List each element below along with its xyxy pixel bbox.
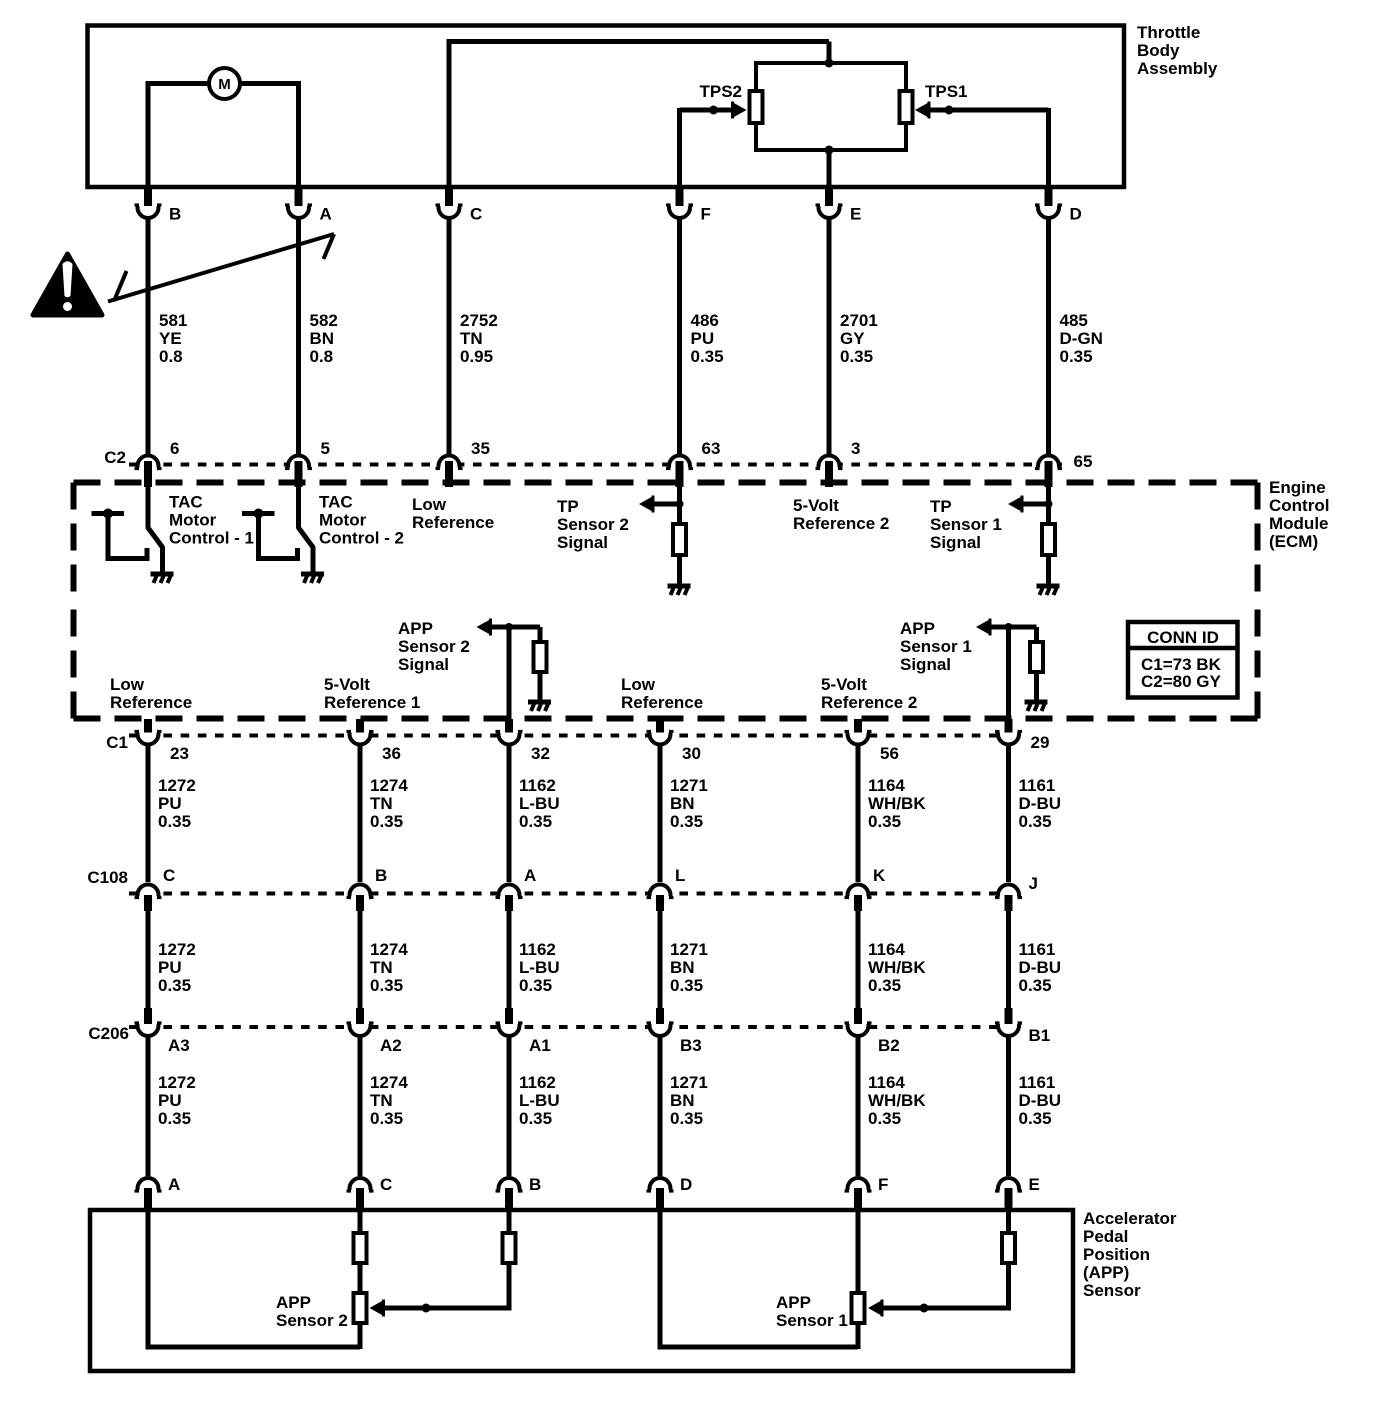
svg-text:C: C (163, 866, 175, 885)
svg-text:1162: 1162 (519, 940, 556, 959)
svg-text:1274: 1274 (370, 1073, 408, 1092)
wire: E wiper path with arrow (868, 1265, 1011, 1317)
svg-text:0.35: 0.35 (1019, 1109, 1052, 1128)
label TAC Motor Control - 1 (169, 493, 254, 548)
svg-text:0.35: 0.35 (370, 812, 403, 831)
svg-text:J: J (1029, 874, 1038, 893)
wire 1161 D-BU C108 to C206 (1006, 910, 1011, 1009)
label Low Reference (pin 23) (110, 675, 192, 712)
svg-text:35: 35 (471, 439, 490, 458)
svg-text:1161: 1161 (1019, 940, 1056, 959)
wire 1274 TN C1 to C108 (358, 745, 363, 882)
connector C206 pin B1 (995, 1008, 1050, 1045)
Accelerator Pedal Position Sensor box (90, 1210, 1073, 1371)
svg-text:C1: C1 (106, 733, 128, 752)
svg-text:Sensor 2: Sensor 2 (398, 637, 470, 656)
svg-text:C108: C108 (87, 868, 128, 887)
wire 1272 PU C1 to C108 (146, 745, 151, 882)
wire label 1164 WH/BK (lower) (868, 1073, 926, 1128)
svg-text:(APP): (APP) (1083, 1263, 1129, 1282)
wire 1272 PU C206 to APP sensor (146, 1037, 151, 1176)
junction dot TPS top (825, 59, 834, 68)
TP Sensor 1 signal circuit (resistor + ground) (1008, 486, 1060, 595)
connector C2 pin 63 (666, 439, 720, 487)
svg-text:D-GN: D-GN (1060, 329, 1103, 348)
connector C2 pin 6 (135, 439, 180, 487)
wire label 1161 D-BU (lower) (1019, 1073, 1062, 1128)
label APP Sensor 1 (776, 1293, 848, 1330)
svg-text:A: A (524, 866, 536, 885)
svg-text:Body: Body (1137, 41, 1180, 60)
connector APP sensor pin E (995, 1175, 1040, 1211)
svg-text:E: E (850, 205, 861, 224)
svg-text:BN: BN (670, 794, 695, 813)
svg-text:0.35: 0.35 (370, 1109, 403, 1128)
svg-text:E: E (1029, 1175, 1040, 1194)
svg-text:0.35: 0.35 (519, 812, 552, 831)
svg-text:PU: PU (158, 958, 182, 977)
wire 1162 L-BU C1 to C108 (507, 745, 512, 882)
connector C2 pin 3 (816, 439, 861, 487)
svg-text:TP: TP (930, 497, 952, 516)
svg-text:D: D (680, 1175, 692, 1194)
connector C1 pin 56 (845, 719, 899, 763)
svg-text:0.35: 0.35 (670, 1109, 703, 1128)
svg-text:TN: TN (460, 329, 483, 348)
junction dot on TPS2 wiper wire (709, 106, 718, 115)
svg-text:M: M (218, 76, 231, 93)
connector C108 pin A (496, 866, 537, 911)
junction dot on APP2 wiper wire (422, 1304, 431, 1313)
svg-text:Reference 1: Reference 1 (324, 693, 420, 712)
connector C108 pin L (647, 866, 686, 911)
svg-text:Motor: Motor (319, 511, 367, 530)
connector C1 pin 30 (647, 719, 701, 763)
svg-text:Throttle: Throttle (1137, 23, 1200, 42)
svg-text:Sensor 1: Sensor 1 (900, 637, 972, 656)
wire label 1164 WH/BK (middle) (868, 940, 926, 995)
svg-text:Sensor 1: Sensor 1 (930, 515, 1002, 534)
svg-text:0.35: 0.35 (670, 812, 703, 831)
wire 1271 BN C108 to C206 (658, 910, 663, 1009)
svg-text:B3: B3 (680, 1036, 702, 1055)
wire label 1274 TN (lower) (370, 1073, 408, 1128)
connector C108 pin J (995, 874, 1038, 911)
svg-text:C: C (380, 1175, 392, 1194)
svg-text:A: A (168, 1175, 180, 1194)
wire label 485 D-GN 0.35 (1060, 311, 1103, 366)
svg-text:5-Volt: 5-Volt (793, 496, 839, 515)
svg-text:Reference: Reference (621, 693, 703, 712)
TPS bridge rectangle (756, 63, 906, 150)
connector row C206 dotted line (129, 1025, 1022, 1029)
wire: D wiper to TPS1 with arrow (915, 102, 1049, 188)
svg-text:0.35: 0.35 (868, 812, 901, 831)
svg-text:L-BU: L-BU (519, 1091, 560, 1110)
svg-text:Control - 2: Control - 2 (319, 529, 404, 548)
wire: pot bottom to low ref rail (358, 1325, 363, 1349)
svg-text:581: 581 (159, 311, 187, 330)
resistor: APP sensor 1 signal series (E) (1002, 1233, 1015, 1263)
svg-text:Signal: Signal (930, 533, 981, 552)
label APP Sensor 2 (276, 1293, 348, 1330)
wire label 1271 BN (middle) (670, 940, 708, 995)
svg-text:0.35: 0.35 (868, 1109, 901, 1128)
svg-text:1164: 1164 (868, 776, 905, 795)
svg-text:BN: BN (670, 958, 695, 977)
connector APP sensor pin F (845, 1175, 889, 1211)
switch: TAC Motor Control - 2 (242, 486, 324, 583)
svg-text:A3: A3 (168, 1036, 190, 1055)
svg-text:0.35: 0.35 (158, 1109, 191, 1128)
wire segment 2701 GY (827, 219, 832, 454)
wire: motor left to B leg (148, 81, 210, 86)
svg-text:GY: GY (840, 329, 865, 348)
APP Sensor 1 signal circuit (resistor + ground) (976, 619, 1048, 738)
label TPS2 (699, 82, 742, 101)
wire 1274 TN C108 to C206 (358, 910, 363, 1009)
wire 1271 BN C1 to C108 (658, 745, 663, 882)
svg-text:Signal: Signal (900, 655, 951, 674)
svg-text:APP: APP (398, 619, 433, 638)
connector C2 pin 65 (1035, 452, 1092, 487)
label 5-Volt Reference 1 (pin 36) (324, 675, 420, 712)
wire label 1162 L-BU (lower) (519, 1073, 560, 1128)
wire segment 581 YE (146, 219, 151, 454)
label Low Reference (pin 30) (621, 675, 703, 712)
svg-text:2701: 2701 (840, 311, 878, 330)
svg-text:L-BU: L-BU (519, 958, 560, 977)
svg-text:C2=80 GY: C2=80 GY (1141, 672, 1222, 691)
wire label 582 BN 0.8 (310, 311, 338, 366)
wire label 1162 L-BU (middle) (519, 940, 560, 995)
svg-text:Pedal: Pedal (1083, 1227, 1128, 1246)
svg-text:TN: TN (370, 1091, 393, 1110)
label TAC Motor Control - 2 (319, 493, 404, 548)
connector row C2 dotted line (129, 463, 1062, 467)
wire 1161 D-BU C1 to C108 (1006, 745, 1011, 882)
wire 1161 D-BU C206 to APP sensor (1006, 1037, 1011, 1176)
svg-text:56: 56 (880, 744, 899, 763)
label C206 (88, 1024, 129, 1043)
connector C206 pin A1 (496, 1008, 551, 1055)
label APP Sensor 1 Signal (900, 619, 972, 674)
wire label 1162 L-BU (upper) (519, 776, 560, 831)
potentiometer: APP Sensor 1 element (852, 1293, 865, 1323)
svg-text:6: 6 (170, 439, 179, 458)
svg-text:TAC: TAC (169, 493, 203, 512)
label: Accelerator Pedal Position (APP) Sensor (1083, 1209, 1177, 1300)
svg-text:5-Volt: 5-Volt (821, 675, 867, 694)
wire: between resistor and pot (C) (358, 1265, 363, 1292)
connector C2 pin 5 (285, 439, 330, 487)
CONN ID table (1128, 622, 1238, 698)
label Low Reference (pin 35) (412, 495, 494, 532)
svg-text:APP: APP (276, 1293, 311, 1312)
label C2 (104, 448, 126, 467)
svg-text:D-BU: D-BU (1019, 794, 1062, 813)
svg-text:WH/BK: WH/BK (868, 958, 926, 977)
connector C206 pin A2 (347, 1008, 402, 1055)
svg-text:C206: C206 (88, 1024, 129, 1043)
svg-text:65: 65 (1074, 452, 1093, 471)
wire label 1274 TN (upper) (370, 776, 408, 831)
svg-text:B1: B1 (1029, 1026, 1051, 1045)
wire segment 582 BN (296, 219, 301, 454)
svg-text:K: K (873, 866, 886, 885)
svg-text:0.35: 0.35 (670, 976, 703, 995)
connector C206 pin B2 (845, 1008, 900, 1055)
label: Throttle Body Assembly (1137, 23, 1218, 78)
svg-text:Engine: Engine (1269, 478, 1326, 497)
connector C2 pin 35 (436, 439, 490, 487)
wire 1272 PU C108 to C206 (146, 910, 151, 1009)
svg-text:Signal: Signal (398, 655, 449, 674)
svg-text:1162: 1162 (519, 776, 556, 795)
svg-text:WH/BK: WH/BK (868, 794, 926, 813)
svg-text:D-BU: D-BU (1019, 1091, 1062, 1110)
svg-text:A1: A1 (529, 1036, 551, 1055)
svg-text:APP: APP (900, 619, 935, 638)
svg-text:2752: 2752 (460, 311, 498, 330)
wire 1162 L-BU C108 to C206 (507, 910, 512, 1009)
svg-text:Low: Low (412, 495, 447, 514)
svg-text:TPS1: TPS1 (925, 82, 968, 101)
wire 1164 WH/BK C206 to APP sensor (856, 1037, 861, 1176)
wire: C up and across to TPS top (447, 42, 830, 188)
connector APP sensor pin B (496, 1175, 542, 1211)
connector row C108 dotted line (129, 892, 1022, 896)
svg-text:1161: 1161 (1019, 1073, 1056, 1092)
svg-text:Control - 1: Control - 1 (169, 529, 254, 548)
wire label 1272 PU (lower) (158, 1073, 196, 1128)
svg-text:485: 485 (1060, 311, 1088, 330)
wire segment 2752 TN (447, 219, 452, 454)
svg-text:D-BU: D-BU (1019, 958, 1062, 977)
svg-text:1162: 1162 (519, 1073, 556, 1092)
wire label 1271 BN (lower) (670, 1073, 708, 1128)
svg-text:486: 486 (691, 311, 719, 330)
connector pin E (throttle body) (816, 186, 862, 224)
svg-text:TN: TN (370, 958, 393, 977)
wire 1162 L-BU C206 to APP sensor (507, 1037, 512, 1176)
TP Sensor 2 signal circuit (resistor + ground) (639, 486, 691, 595)
ECM dashed box (74, 483, 1258, 719)
wire label 1272 PU (upper) (158, 776, 196, 831)
wire label 2701 GY 0.35 (840, 311, 878, 366)
wire label 1161 D-BU (upper) (1019, 776, 1062, 831)
svg-text:1271: 1271 (670, 776, 708, 795)
svg-text:0.8: 0.8 (310, 347, 334, 366)
APP Sensor 2 signal circuit (resistor + ground) (477, 619, 552, 738)
Throttle Body Assembly box (88, 26, 1125, 188)
label 5-Volt Reference 2 (pin 3) (793, 496, 889, 533)
resistor: APP sensor 2 series (C) (354, 1233, 367, 1263)
svg-text:36: 36 (382, 744, 401, 763)
svg-text:PU: PU (158, 794, 182, 813)
wire label 1271 BN (upper) (670, 776, 708, 831)
svg-text:0.35: 0.35 (158, 812, 191, 831)
label: Engine Control Module (ECM) (1269, 478, 1329, 551)
svg-text:C: C (470, 205, 482, 224)
svg-text:1274: 1274 (370, 776, 408, 795)
connector C1 pin 23 (135, 719, 189, 763)
wire 1164 WH/BK C1 to C108 (856, 745, 861, 882)
svg-text:APP: APP (776, 1293, 811, 1312)
connector C1 pin 32 (496, 719, 550, 763)
junction dot on APP1 wiper wire (920, 1304, 929, 1313)
resistor: TPS1 element (900, 91, 913, 123)
wire segment 486 PU (677, 219, 682, 454)
connector C108 pin B (347, 866, 388, 911)
svg-text:YE: YE (159, 329, 182, 348)
svg-text:0.35: 0.35 (1019, 976, 1052, 995)
motor M1 circle with M (209, 68, 240, 99)
svg-text:Module: Module (1269, 514, 1329, 533)
junction dot on TPS1 wiper wire (945, 106, 954, 115)
warning triangle symbol (33, 254, 102, 315)
wire: pin C 5V into resistor (358, 1210, 363, 1232)
svg-text:Reference: Reference (110, 693, 192, 712)
leader arrow from warning symbol (108, 234, 334, 302)
label TPS1 (925, 82, 968, 101)
wire label 1164 WH/BK (upper) (868, 776, 926, 831)
svg-text:0.35: 0.35 (519, 976, 552, 995)
svg-text:B2: B2 (878, 1036, 900, 1055)
svg-text:Sensor 2: Sensor 2 (276, 1311, 348, 1330)
connector C108 pin K (845, 866, 887, 911)
svg-text:Sensor 2: Sensor 2 (557, 515, 629, 534)
svg-text:TP: TP (557, 497, 579, 516)
connector C206 pin B3 (647, 1008, 702, 1055)
wire 1271 BN C206 to APP sensor (658, 1037, 663, 1176)
svg-text:Sensor 1: Sensor 1 (776, 1311, 848, 1330)
wire: pin F 5V to pot (856, 1210, 861, 1292)
svg-text:Assembly: Assembly (1137, 59, 1218, 78)
connector pin A (throttle body) (285, 186, 332, 224)
potentiometer: APP Sensor 2 element (354, 1293, 367, 1323)
svg-text:D: D (1070, 205, 1082, 224)
connector pin D (throttle body) (1035, 186, 1082, 224)
svg-text:Motor: Motor (169, 511, 217, 530)
svg-text:1272: 1272 (158, 776, 196, 795)
wire: pot bottom to low ref rail (right) (856, 1325, 861, 1349)
wire label 2752 TN 0.95 (460, 311, 498, 366)
label C108 (87, 868, 128, 887)
svg-text:582: 582 (310, 311, 338, 330)
svg-text:0.35: 0.35 (840, 347, 873, 366)
label 5-Volt Reference 2 (pin 56) (821, 675, 917, 712)
svg-text:F: F (701, 205, 711, 224)
svg-text:B: B (529, 1175, 541, 1194)
resistor: APP sensor 2 signal series (B) (503, 1233, 516, 1263)
svg-text:PU: PU (158, 1091, 182, 1110)
wire: A leg vertical (296, 81, 301, 187)
wire label 581 YE 0.8 (159, 311, 187, 366)
svg-text:3: 3 (851, 439, 860, 458)
svg-text:1271: 1271 (670, 1073, 708, 1092)
svg-text:0.35: 0.35 (868, 976, 901, 995)
svg-text:CONN ID: CONN ID (1147, 628, 1219, 647)
connector pin B (throttle body) (135, 186, 182, 224)
connector pin F (throttle body) (666, 186, 711, 224)
svg-text:PU: PU (691, 329, 715, 348)
wire segment 485 D-GN (1046, 219, 1051, 454)
svg-text:29: 29 (1031, 733, 1050, 752)
svg-text:Low: Low (621, 675, 656, 694)
svg-text:23: 23 (170, 744, 189, 763)
svg-text:63: 63 (702, 439, 721, 458)
wire: B wiper path with arrow (370, 1265, 512, 1317)
svg-text:B: B (169, 205, 181, 224)
svg-text:Position: Position (1083, 1245, 1150, 1264)
label TP Sensor 2 Signal (557, 497, 629, 552)
svg-text:1271: 1271 (670, 940, 708, 959)
svg-text:(ECM): (ECM) (1269, 532, 1318, 551)
svg-text:0.35: 0.35 (691, 347, 724, 366)
wire label 1161 D-BU (middle) (1019, 940, 1062, 995)
svg-text:5-Volt: 5-Volt (324, 675, 370, 694)
svg-text:Accelerator: Accelerator (1083, 1209, 1177, 1228)
connector APP sensor pin A (135, 1175, 181, 1211)
wire 1164 WH/BK C108 to C206 (856, 910, 861, 1009)
svg-text:0.95: 0.95 (460, 347, 493, 366)
svg-text:0.35: 0.35 (158, 976, 191, 995)
svg-text:F: F (878, 1175, 888, 1194)
svg-text:0.8: 0.8 (159, 347, 183, 366)
svg-text:TN: TN (370, 794, 393, 813)
connector C108 pin C (135, 866, 176, 911)
connector APP sensor pin C (347, 1175, 393, 1211)
wire 1274 TN C206 to APP sensor (358, 1037, 363, 1176)
connector APP sensor pin D (647, 1175, 693, 1211)
svg-text:0.35: 0.35 (1060, 347, 1093, 366)
wire label 1274 TN (middle) (370, 940, 408, 995)
svg-text:Low: Low (110, 675, 145, 694)
connector C206 pin A3 (135, 1008, 190, 1055)
wire: motor right to A leg (240, 81, 299, 86)
svg-text:0.35: 0.35 (370, 976, 403, 995)
junction dot TPS bottom (825, 146, 834, 155)
svg-text:0.35: 0.35 (1019, 812, 1052, 831)
svg-text:B: B (375, 866, 387, 885)
connector C1 pin 29 (995, 719, 1049, 752)
label C1 (106, 733, 128, 752)
svg-text:0.35: 0.35 (519, 1109, 552, 1128)
svg-text:L-BU: L-BU (519, 794, 560, 813)
svg-text:1164: 1164 (868, 940, 905, 959)
connector pin C (throttle body) (436, 186, 483, 224)
svg-text:1164: 1164 (868, 1073, 905, 1092)
svg-text:32: 32 (531, 744, 550, 763)
svg-text:Sensor: Sensor (1083, 1281, 1141, 1300)
svg-text:1274: 1274 (370, 940, 408, 959)
svg-text:TAC: TAC (319, 493, 353, 512)
connector row C1 dotted line (129, 734, 1022, 738)
wire label 1272 PU (middle) (158, 940, 196, 995)
label APP Sensor 2 Signal (398, 619, 470, 674)
wire: B leg vertical (146, 81, 151, 187)
label TP Sensor 1 Signal (930, 497, 1002, 552)
switch: TAC Motor Control - 1 (92, 486, 174, 583)
wire: F wiper to TPS2 with arrow (680, 102, 747, 188)
wire: pin E signal into resistor (1006, 1210, 1011, 1232)
wire label 486 PU 0.35 (691, 311, 724, 366)
svg-text:L: L (675, 866, 685, 885)
svg-text:Signal: Signal (557, 533, 608, 552)
resistor: TPS2 element (750, 91, 763, 123)
svg-text:5: 5 (321, 439, 330, 458)
